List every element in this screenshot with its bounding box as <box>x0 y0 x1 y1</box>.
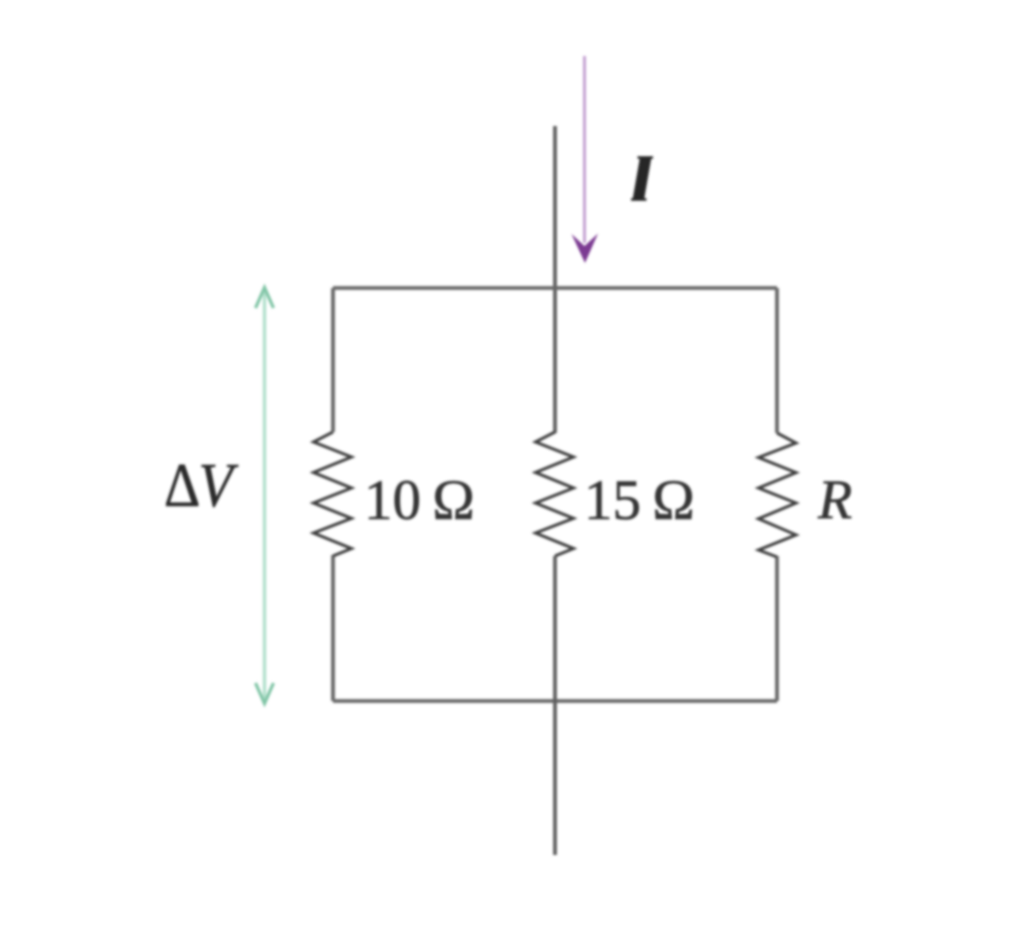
wire top horizontal <box>333 286 777 290</box>
svg-text:R: R <box>817 469 852 531</box>
svg-text:15 Ω: 15 Ω <box>584 469 695 532</box>
wire right branch lower <box>775 556 779 701</box>
voltage arrow shaft <box>263 292 266 699</box>
wire bottom horizontal <box>333 699 777 703</box>
current arrow shaft <box>583 56 586 243</box>
wire right branch upper <box>775 288 779 433</box>
resistor 15 ohm <box>536 432 574 556</box>
svg-text:ΔV: ΔV <box>164 451 238 520</box>
wire left branch lower <box>331 555 335 701</box>
resistor R <box>759 433 797 557</box>
wire top feed <box>553 126 557 433</box>
voltage arrowhead bottom <box>256 683 274 704</box>
svg-text:10 Ω: 10 Ω <box>364 469 475 532</box>
label I <box>633 157 652 200</box>
voltage arrowhead top <box>256 288 274 309</box>
wire left branch upper <box>331 288 335 432</box>
current arrowhead <box>572 234 599 264</box>
resistor 10 ohm <box>314 432 352 556</box>
wire middle branch lower / bottom feed <box>553 556 557 855</box>
